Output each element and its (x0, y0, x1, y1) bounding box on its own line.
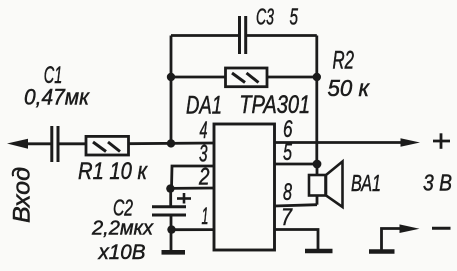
wire R2 row left (171, 76, 226, 79)
svg-text:0,47мк: 0,47мк (24, 85, 91, 110)
wire IC pin 2 (170, 187, 214, 190)
node pin2/pin3 join (166, 184, 174, 192)
svg-text:7: 7 (281, 204, 293, 231)
wire IC pin 6 to plus terminal (275, 141, 403, 144)
capacitor C1 (52, 126, 58, 162)
svg-text:50 к: 50 к (328, 75, 371, 101)
ground under C2 (162, 250, 186, 255)
svg-text:ВА1: ВА1 (351, 170, 381, 196)
svg-text:5: 5 (290, 4, 299, 30)
wire C2 to ground (170, 216, 173, 252)
wire R1 to IC pin 4 (129, 142, 215, 145)
wire node to C2 (169, 189, 172, 207)
minus sign of supply (432, 227, 451, 230)
svg-text:8: 8 (283, 179, 292, 206)
ground at pin 7 (305, 249, 333, 253)
svg-text:DA1: DA1 (186, 92, 222, 120)
node pin1 (167, 225, 175, 233)
wire feedback right vertical (315, 36, 318, 165)
svg-text:TPA301: TPA301 (239, 91, 310, 119)
wire R2 row right (267, 76, 317, 79)
plus sign of C2 (177, 193, 191, 204)
wire IC pin 7 (275, 230, 319, 250)
wire IC pin 3 (172, 166, 215, 188)
wire feedback left vertical (170, 36, 173, 144)
svg-text:х10В: х10В (98, 241, 146, 264)
wire IC pin 8 (275, 205, 318, 206)
wire top loop left (171, 34, 239, 37)
IC DA1 box (214, 124, 275, 250)
svg-text:1: 1 (202, 203, 209, 230)
ground stub minus terminal (369, 249, 395, 254)
capacitor C2 (152, 207, 186, 215)
plus sign of supply (433, 133, 450, 149)
svg-text:R1 10 к: R1 10 к (78, 158, 148, 185)
node at R2 right (313, 73, 321, 81)
resistor R1 (86, 136, 129, 155)
svg-text:Вход: Вход (9, 167, 36, 223)
plus terminal arrow (401, 138, 421, 147)
svg-text:2: 2 (198, 164, 209, 191)
wire top loop right (246, 34, 317, 37)
svg-text:5: 5 (283, 139, 292, 166)
wire node to speaker top (316, 164, 319, 175)
resistor R2 (226, 68, 268, 87)
wire C1 to R1 (58, 142, 86, 145)
capacitor C3 (240, 16, 246, 54)
minus terminal arrow (400, 224, 420, 233)
svg-text:2,2мкх: 2,2мкх (91, 218, 154, 240)
wire IC pin 5 to speaker node (275, 163, 318, 166)
wire IC pin 1 (172, 228, 215, 231)
svg-text:С3: С3 (256, 4, 274, 30)
speaker BA1 (309, 162, 343, 208)
svg-text:R2: R2 (333, 47, 355, 75)
node at R2 left (167, 73, 175, 81)
svg-text:3 В: 3 В (423, 170, 452, 196)
wire minus terminal (382, 229, 402, 251)
node at pin4 / feedback (167, 139, 175, 147)
wire speaker bottom stub (316, 196, 319, 205)
input terminal arrow (7, 139, 52, 149)
node pin5 / speaker (313, 160, 322, 169)
